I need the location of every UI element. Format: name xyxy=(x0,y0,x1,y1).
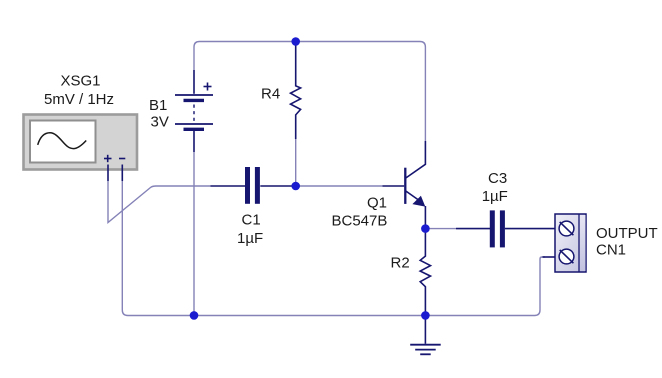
transistor Q1 emitter arrow xyxy=(412,196,425,207)
svg-text:CN1: CN1 xyxy=(596,242,626,259)
XSG1 plus terminal stub xyxy=(107,165,109,182)
transistor Q1 xyxy=(383,141,426,229)
ground xyxy=(410,316,441,355)
resistor R2 xyxy=(420,230,430,316)
svg-text:C1: C1 xyxy=(242,211,261,228)
wire top rail from battery top to collector xyxy=(194,42,425,142)
XSG1 plus terminal mark xyxy=(104,155,112,162)
wire C1 node to Q1 base xyxy=(296,185,383,187)
XSG1 minus terminal stub xyxy=(121,165,123,182)
svg-text:BC547B: BC547B xyxy=(332,212,388,229)
connector CN1 xyxy=(543,214,587,272)
node C1 / R4 / base xyxy=(291,182,300,191)
svg-text:Q1: Q1 xyxy=(367,194,387,211)
node R2 / ground / bottom rail xyxy=(421,311,430,320)
wire R4 bottom lead to node xyxy=(295,139,297,186)
svg-text:R2: R2 xyxy=(391,255,410,272)
wire battery bottom to bottom rail xyxy=(193,152,195,316)
capacitor C3 xyxy=(456,210,555,247)
wire XSG1 plus terminal diagonal to C1 line xyxy=(108,181,211,223)
capacitor C1 xyxy=(211,167,296,204)
resistor R4 xyxy=(291,45,301,140)
battery B1 xyxy=(175,70,213,152)
svg-text:5mV / 1Hz: 5mV / 1Hz xyxy=(44,91,114,108)
svg-text:R4: R4 xyxy=(261,86,280,103)
XSG1 sine wave icon xyxy=(38,133,86,149)
XSG1 minus terminal mark xyxy=(119,158,125,160)
svg-text:1µF: 1µF xyxy=(237,230,263,247)
node battery / bottom rail xyxy=(190,311,199,320)
svg-text:B1: B1 xyxy=(149,97,167,114)
battery plus sign xyxy=(204,83,212,91)
svg-text:C3: C3 xyxy=(488,170,507,187)
svg-text:1µF: 1µF xyxy=(482,188,508,205)
wire emitter node to C3 xyxy=(428,228,456,230)
svg-text:XSG1: XSG1 xyxy=(60,72,100,89)
node top rail / R4 xyxy=(291,37,300,46)
wire bottom rail from XSG1 minus, along bottom, up to CN1 pin2 xyxy=(122,181,545,316)
XSG1 function generator body xyxy=(24,115,138,170)
svg-text:OUTPUT: OUTPUT xyxy=(596,225,658,242)
node emitter / R2 / C3 xyxy=(421,224,430,233)
svg-text:3V: 3V xyxy=(151,114,169,131)
